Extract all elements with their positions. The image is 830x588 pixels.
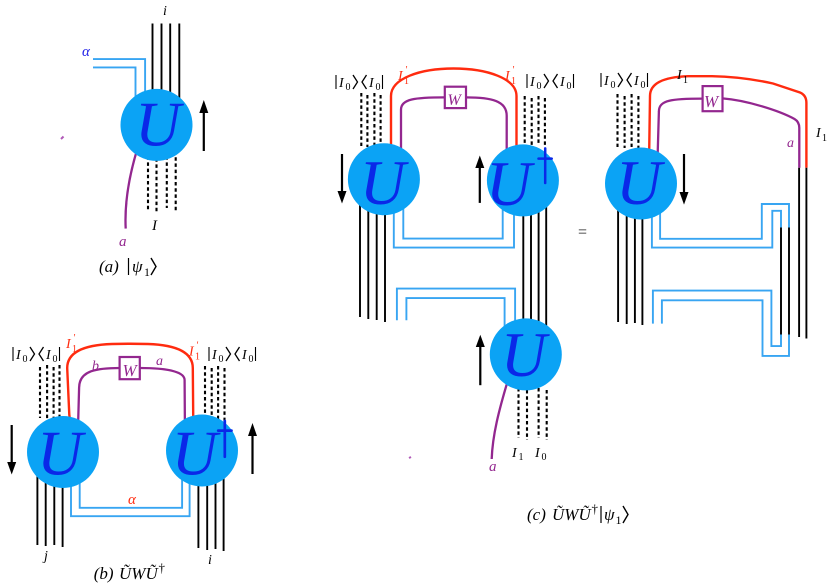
svg-text:j: j [42,549,48,564]
svg-text:a: a [489,459,497,475]
tensor U left (b) [27,416,99,488]
wire black middle right upper (c right) [780,228,782,335]
wire purple right leg from W (c) [466,97,507,154]
svg-text:′: ′ [197,341,199,352]
wire bundle j (4 black wires below left U, b) [37,470,62,547]
wire bundle below U (c right) [618,200,642,325]
svg-text:I: I [211,348,218,363]
bra-ket labels |I0> <I0| left (b) [13,347,60,365]
wire cyan lower structure wire B (c right) [662,300,789,356]
wire a purple bottom U (c) [492,380,508,459]
wire purple left leg to W (c) [401,97,445,152]
svg-text:1: 1 [683,75,688,86]
arrow down left (b) [7,425,16,475]
wire bundle dashed above right U-dagger (b) [205,366,225,423]
wire alpha double cyan (a) inner [93,67,136,100]
svg-text:i: i [208,553,212,568]
svg-text:0: 0 [542,452,547,463]
arrow up middle (c) [475,156,484,203]
svg-text:I: I [45,348,52,363]
wire purple left leg to W (c right) [658,99,703,160]
wire alpha double cyan (a) outer [93,59,145,100]
svg-text:(b): (b) [94,564,114,583]
svg-text:ψ: ψ [132,257,143,276]
wire black middle right lower (c right) [788,228,790,335]
svg-text:1: 1 [822,133,827,144]
caption (c) UWU-dagger |psi_1> [527,501,628,527]
wire black right continuation of red (c right) [805,168,807,339]
svg-text:I: I [534,446,541,461]
arrow up at bottom U (c) [476,335,485,386]
svg-text:I: I [559,75,566,90]
svg-text:a: a [787,136,794,151]
wire cyan lower structure wire A (c right) [653,291,781,347]
svg-text:I: I [15,348,22,363]
svg-text:1: 1 [404,76,409,87]
svg-text:I: I [529,75,536,90]
svg-text:0: 0 [346,82,351,93]
svg-text:b: b [92,359,99,374]
wire I1' red arc (b) [67,344,193,424]
svg-text:0: 0 [611,80,616,91]
wire bundle dashed above left U (b) [40,365,60,420]
svg-text:′: ′ [74,333,76,344]
svg-text:0: 0 [376,82,381,93]
wire a purple right leg (b) [140,368,185,432]
svg-text:0: 0 [537,81,542,92]
wire b purple left leg (b) [78,368,120,432]
svg-text:0: 0 [219,354,224,365]
node I1' label right (c) [504,65,516,87]
wire bundle i (4 black wires below right U-dagger, b) [198,470,223,551]
wire cyan upper structure wire D (c right) [652,208,781,248]
svg-text:0: 0 [641,80,646,91]
bra-ket labels |I0> <I0| right (b) [209,347,256,365]
wire cyan upper bridge inner (c) [403,206,502,239]
svg-text:0: 0 [23,354,28,365]
svg-text:(c): (c) [527,505,546,524]
node I1' label right (b) [188,341,200,363]
svg-text:0: 0 [567,81,572,92]
svg-text:1: 1 [616,513,622,527]
stray purple speck (a) [61,137,64,140]
svg-text:U: U [172,419,221,489]
tensor W box (b) [120,357,140,380]
tensor U (c right) [605,148,677,220]
tensor U (a) [121,89,193,161]
wire black right continuation of purple (c right) [798,168,800,337]
svg-text:(a): (a) [99,257,119,276]
svg-text:I: I [815,126,822,141]
svg-text:W: W [704,92,720,111]
svg-text:I: I [151,218,158,234]
wire cyan lower bridge inner (c) [406,298,504,326]
wire bundle dashed below bottom U (c) [519,388,547,440]
svg-text:0: 0 [53,354,58,365]
svg-text:a: a [156,354,163,369]
svg-text:0: 0 [249,354,254,365]
bra-ket labels |I0> <I0| (c right) [601,73,648,91]
wire I1' red arc (c) [391,69,517,153]
svg-text:†: † [159,560,166,575]
svg-text:U: U [616,148,665,218]
svg-text:a: a [119,234,127,250]
svg-text:1: 1 [511,76,516,87]
tensor W box (c) [445,87,466,109]
node I1' label left (b) [65,333,77,355]
wire bundle between U-dagger and bottom U (c) [523,200,546,332]
svg-text:1: 1 [519,452,524,463]
svg-text:W: W [448,92,463,109]
svg-text:i: i [163,4,167,19]
svg-text:I: I [65,337,72,352]
svg-text:U: U [501,320,550,390]
svg-text:I: I [511,446,518,461]
svg-text:I: I [188,345,195,360]
wire bundle below left U going down (c) [360,200,385,322]
node I1 label right (c right) [815,126,827,144]
tensor U bottom (c) [490,318,562,390]
wire cyan upper structure wire C (c right) [660,204,789,239]
svg-text:ŨWŨ: ŨWŨ [552,505,592,524]
svg-text:1: 1 [144,265,150,279]
wire I1 red arc (c right) [649,76,806,168]
svg-text:W: W [123,361,139,380]
wire cyan lower bridge outer (c) [397,289,515,328]
svg-text:ψ: ψ [604,505,615,524]
svg-text:1: 1 [195,352,200,363]
wire purple right leg from W (c right) [723,98,800,167]
svg-text:ŨWŨ: ŨWŨ [119,564,159,583]
wire alpha double cyan (b) outer [71,478,190,516]
svg-text:=: = [578,224,587,241]
svg-text:†: † [592,501,599,516]
svg-text:α: α [128,492,137,508]
tensor W box (c right) [703,86,723,111]
svg-text:I: I [368,76,375,91]
node I1 label (c bottom) [511,446,524,463]
tensor U-dagger right (c) [487,144,559,216]
wire bundle dashed above left U (c) [361,93,380,147]
wire a purple (a) [125,150,137,229]
wire bundle I (4 dashed wires below U, panel a) [148,150,176,213]
svg-text:U: U [37,419,86,489]
bra-ket labels |I0> <I0| right (c) [527,74,574,92]
svg-text:I: I [633,74,640,89]
arrow up right (b) [248,423,257,474]
tensor U left (c) [348,143,420,215]
wire bundle i (4 black wires above U) [153,24,180,101]
wire cyan upper bridge outer (c) [394,206,514,248]
wire alpha double cyan (b) inner [80,478,182,508]
arrow down far left (c) [338,154,347,204]
node I0 label (c bottom) [534,446,547,463]
svg-text:I: I [397,69,404,84]
svg-text:U: U [135,90,184,160]
caption (b) UWU-dagger [94,560,166,583]
svg-text:′: ′ [513,65,515,76]
svg-text:′: ′ [406,65,408,76]
node I1 label top (c right) [676,68,688,86]
svg-text:U: U [486,149,535,219]
caption (a) |psi_1> [99,257,156,279]
svg-text:α: α [82,44,91,60]
stray purple speck (c) [409,457,411,458]
arrow up (a) [199,100,208,151]
svg-text:I: I [603,74,610,89]
svg-text:I: I [338,76,345,91]
bra-ket labels |I0> <I0| left (c) [336,75,383,93]
node I1' label left (c) [397,65,409,87]
wire bundle dashed above U-dagger (c) [525,96,545,146]
svg-text:U: U [360,148,409,218]
tensor U-dagger right (b) [166,415,238,487]
svg-text:I: I [241,348,248,363]
wire bundle dashed above U (c right) [618,94,639,148]
svg-text:1: 1 [72,344,77,355]
arrow down (c right) [680,154,689,205]
